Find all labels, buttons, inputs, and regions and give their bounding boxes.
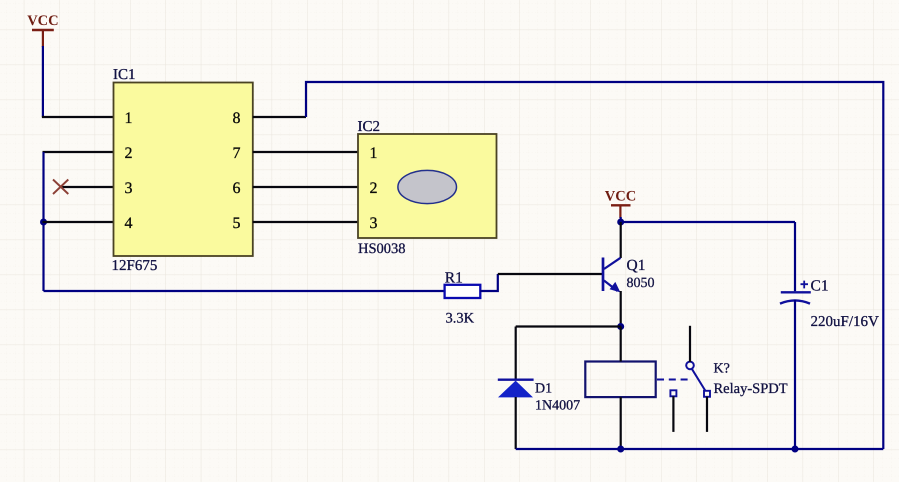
Q1 emitter arrow — [610, 282, 621, 293]
IC2 body (IR receiver) — [358, 134, 497, 238]
wire IC1 pin 5 to IC2 pin 3 — [253, 221, 358, 223]
wire VCC2 stub to junction — [620, 217, 622, 223]
svg-text:Q1: Q1 — [627, 257, 646, 274]
relay NO pin down — [706, 397, 708, 432]
wire Q1 emitter down — [620, 291, 622, 327]
svg-text:D1: D1 — [535, 382, 552, 397]
wire from IC1 pin 2 — [43, 151, 114, 153]
svg-text:1N4007: 1N4007 — [535, 399, 580, 414]
svg-text:1: 1 — [125, 110, 133, 127]
wire bottom run to R1 — [44, 290, 445, 292]
transistor Q1 — [603, 258, 621, 292]
svg-text:8: 8 — [233, 110, 241, 127]
diode D1 cathode bar — [498, 379, 534, 381]
svg-text:IC1: IC1 — [113, 67, 136, 83]
pin stub IC1 pin 3 — [60, 186, 114, 188]
wire left vertical (pin2/pin4 net) — [42, 152, 44, 291]
svg-text:HS0038: HS0038 — [358, 241, 406, 257]
wire VCC node to C1 — [621, 221, 795, 223]
relay coil pin bottom — [620, 397, 622, 449]
svg-text:2: 2 — [125, 145, 133, 162]
pin stub Q1 base — [498, 273, 603, 275]
svg-text:7: 7 — [233, 145, 241, 162]
capacitor C1 positive plate — [781, 291, 811, 293]
relay coil pin top — [620, 327, 622, 362]
relay actuation dashed link — [657, 379, 690, 381]
svg-text:3: 3 — [125, 180, 133, 197]
wire Q1 collector — [620, 222, 622, 258]
svg-text:5: 5 — [233, 215, 241, 232]
svg-text:8050: 8050 — [627, 276, 655, 291]
relay K? coil box — [585, 362, 655, 398]
wire to IC1 pin 1 — [42, 116, 114, 118]
wire from IC1 pin 4 — [43, 221, 114, 223]
junction emitter node — [617, 323, 624, 330]
relay switch blade — [692, 368, 706, 391]
IC2 lens ellipse — [398, 170, 457, 203]
wire emitter node to D1 branch — [516, 325, 621, 327]
diode D1 triangle — [498, 381, 533, 398]
wire R1 to Q1 base (navy part) — [480, 274, 498, 291]
wire IC1 pin 7 to IC2 pin 1 — [253, 151, 358, 153]
relay common pin up — [689, 326, 691, 362]
svg-text:3: 3 — [370, 215, 378, 232]
svg-text:IC2: IC2 — [358, 119, 381, 135]
wire pin8 riser, top run and right edge — [306, 82, 883, 449]
svg-text:R1: R1 — [445, 270, 463, 287]
wire C1 bottom — [794, 300, 796, 449]
C1 plus sign — [801, 281, 809, 289]
wire IC1 pin 6 to IC2 pin 2 — [253, 186, 358, 188]
svg-text:4: 4 — [125, 215, 133, 232]
relay NC pin down — [672, 396, 674, 432]
IC IC1 body (12F675) — [114, 83, 253, 257]
junction C1 bottom node — [792, 446, 799, 453]
svg-text:3.3K: 3.3K — [446, 311, 475, 327]
power symbol VCC (top-left) — [32, 30, 54, 47]
wire D1 branch down — [515, 327, 517, 380]
relay common contact circle — [686, 362, 694, 370]
wire bottom run — [516, 448, 884, 450]
svg-text:Relay-SPDT: Relay-SPDT — [714, 381, 788, 397]
junction VCC2 node — [617, 219, 624, 226]
junction at pin 4 row — [40, 219, 47, 226]
resistor R1 body — [445, 285, 481, 298]
svg-text:K?: K? — [714, 362, 730, 377]
svg-text:6: 6 — [233, 180, 241, 197]
relay NO contact square — [704, 391, 710, 397]
svg-text:C1: C1 — [811, 278, 829, 295]
wire C1 top — [794, 222, 796, 291]
svg-text:VCC: VCC — [27, 13, 58, 29]
relay NC contact square — [670, 390, 676, 396]
no-ERC marker X on pin 3 — [53, 180, 68, 195]
svg-text:2: 2 — [370, 180, 378, 197]
svg-text:1: 1 — [370, 145, 378, 162]
svg-text:12F675: 12F675 — [112, 258, 158, 274]
capacitor C1 curved plate — [780, 300, 810, 303]
wire from IC1 pin 8 — [253, 116, 306, 118]
power symbol VCC (middle) — [611, 205, 631, 218]
wire D1 anode down — [515, 397, 517, 449]
svg-text:VCC: VCC — [605, 189, 636, 205]
svg-text:220uF/16V: 220uF/16V — [811, 314, 880, 330]
junction coil bottom node — [617, 446, 624, 453]
wire VCC down to pin 1 row — [42, 46, 44, 117]
